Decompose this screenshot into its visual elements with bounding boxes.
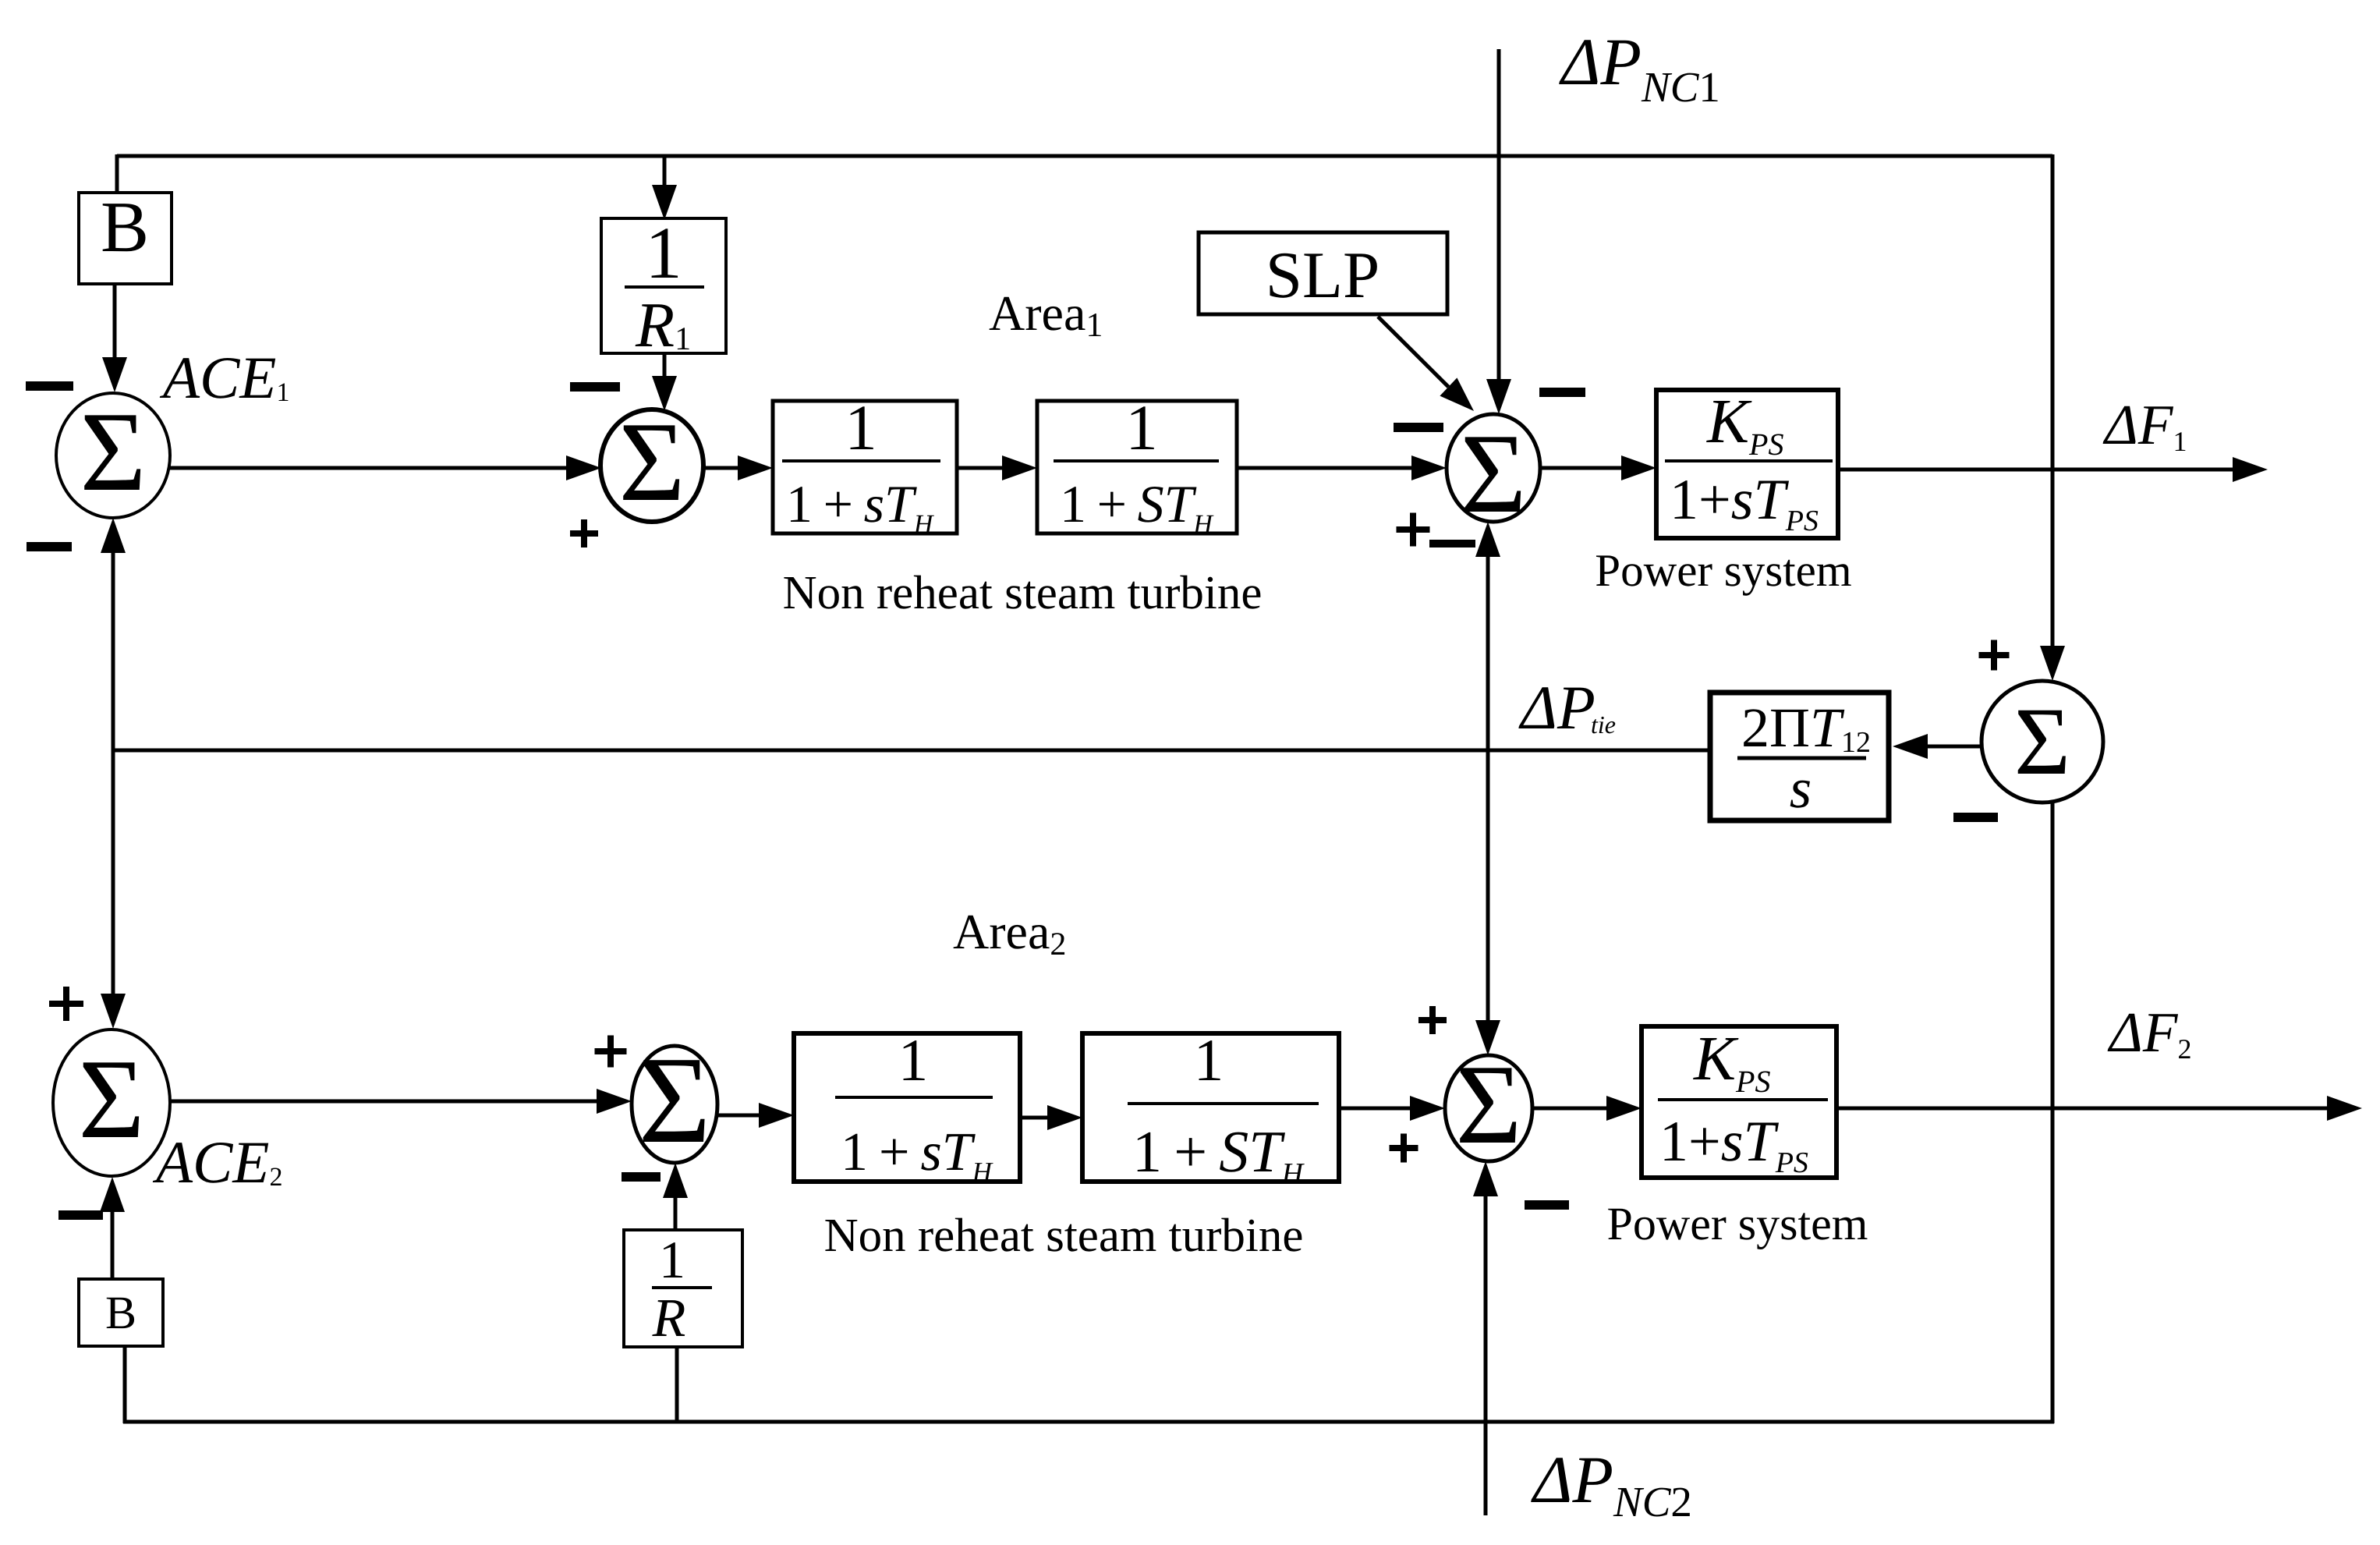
svg-text:KPS: KPS (1706, 386, 1783, 462)
wire: top feedback line from DF1 trunk to B and 1/R1 (117, 154, 2052, 158)
sign plus at load summer 2 top input (1418, 1017, 1447, 1023)
wire: right trunk lower from tie summer bottom to bottom feedback line (2051, 803, 2055, 1423)
svg-text:1: 1 (1194, 1026, 1224, 1093)
block 1/R1 (droop area 1) (601, 218, 726, 353)
wire: turbine to load summer 1 (1237, 466, 1413, 470)
block B2 (frequency bias area 2) (79, 1279, 163, 1346)
wire: bottom feedback line (DF2 to B and 1/R) (123, 1420, 2054, 1424)
sign plus at governor summer 2 left input (595, 1048, 627, 1054)
svg-text:Σ: Σ (80, 388, 147, 515)
summer load area 1 (1447, 414, 1540, 522)
wire: governor summer 1 to turbine box 1 (703, 466, 739, 470)
wire: ACE1 output to governor summer 1 (170, 466, 568, 470)
sign plus at tie summer top input (1979, 652, 2010, 658)
summer ACE2 (53, 1029, 170, 1176)
sign minus at load summer 2 bottom input (1525, 1200, 1569, 1210)
wire: load summer 1 to power system 1 (1540, 466, 1623, 470)
svg-text:B: B (101, 187, 149, 268)
svg-text:Σ: Σ (79, 1036, 145, 1162)
svg-text:Σ: Σ (2014, 688, 2070, 795)
sign minus at load summer 1 bottom input (1429, 540, 1475, 547)
svg-text:tie: tie (1591, 710, 1616, 739)
svg-text:1: 1 (1125, 392, 1158, 463)
wire: 1/R1 into governor summer 1 (minus) (663, 353, 667, 377)
svg-text:1 + STH: 1 + STH (1060, 474, 1214, 539)
svg-text:1+sTPS: 1+sTPS (1670, 468, 1819, 537)
svg-text:Σ: Σ (1456, 1041, 1522, 1168)
svg-text:Power system: Power system (1607, 1198, 1868, 1249)
wire: right trunk vertical (DF1 junction down to tie summer) (2051, 154, 2055, 647)
block tie line 2*PI*T12/s (1710, 693, 1889, 820)
wire: power system 1 output DF1 (1838, 468, 2234, 472)
wire: B into ACE1 summer (minus) (113, 284, 117, 359)
svg-text:ΔPNC1: ΔPNC1 (1559, 24, 1720, 111)
sign plus at load summer 2 left input (1390, 1145, 1418, 1151)
wire: 1/R into governor summer 2 (minus) (674, 1196, 678, 1230)
wire: turbine to load summer 2 (1339, 1107, 1411, 1111)
wire: turbine box 1 to turbine box 2 (area 1) (957, 466, 1004, 470)
wire: arrow into tie summer top (2040, 646, 2065, 681)
wire: turbine box 1 to box 2 (area 2) (1020, 1116, 1049, 1120)
wire: corner down to B box (115, 154, 119, 194)
svg-text:ΔF1: ΔF1 (2102, 393, 2187, 457)
svg-text:ΔPNC2: ΔPNC2 (1531, 1442, 1692, 1526)
block power system 2 KPS/(1+sTPS) (1642, 1026, 1836, 1178)
svg-text:1 + sTH: 1 + sTH (786, 474, 935, 539)
summer governor area 2 (632, 1046, 717, 1163)
svg-text:ACE2: ACE2 (152, 1129, 282, 1196)
sign minus at governor summer 1 top input (570, 382, 620, 392)
wire: load summer 2 to power system 2 (1532, 1107, 1608, 1111)
svg-text:R: R (652, 1288, 686, 1348)
block governor 1/(1+sTH) area 2 (794, 1033, 1020, 1182)
summer load area 2 (1445, 1055, 1532, 1161)
sign plus at load summer 1 left input (1397, 526, 1430, 533)
svg-text:ΔP: ΔP (1518, 674, 1596, 742)
block governor 1/(1+sTH) area 1 (773, 401, 957, 533)
wire: DPtie up into load summer 1 bottom (minus) (1486, 555, 1490, 750)
sign minus at ACE2 bottom input (58, 1210, 103, 1220)
svg-text:1: 1 (645, 211, 682, 294)
svg-text:1 + STH: 1 + STH (1132, 1119, 1305, 1190)
svg-text:1 + sTH: 1 + sTH (841, 1122, 993, 1187)
wire: ACE2 output to governor summer 2 (170, 1100, 598, 1104)
sign plus at ACE2 top input (49, 1001, 83, 1007)
sign minus at governor summer 2 bottom input (622, 1172, 661, 1182)
svg-text:R1: R1 (635, 289, 691, 360)
wire: DPtie down into load summer 2 top (plus) (1486, 750, 1490, 1022)
svg-text:ΔF2: ΔF2 (2107, 1001, 2191, 1065)
wire: corner up to B box 2 (123, 1346, 127, 1423)
svg-text:Area1: Area1 (989, 285, 1103, 344)
svg-text:ACE1: ACE1 (159, 344, 289, 411)
block power system 1 KPS/(1+sTPS) (1656, 390, 1838, 538)
wire: B into ACE2 bottom (minus) (111, 1210, 115, 1279)
sign minus at load summer 1 SLP input (1394, 423, 1443, 432)
svg-text:s: s (1790, 757, 1812, 820)
sign plus at governor summer 1 left input (570, 530, 598, 537)
wire: DPnc2 input up into load summer 2 bottom (1484, 1195, 1488, 1515)
svg-text:KPS: KPS (1693, 1023, 1770, 1099)
summer ACE1 (56, 393, 170, 518)
svg-text:1: 1 (898, 1026, 929, 1093)
block turbine 1/(1+STH) area 1 (1037, 401, 1237, 533)
wire: SLP arrow into load summer 1 (1378, 317, 1448, 387)
block turbine 1/(1+STH) area 2 (1082, 1033, 1339, 1182)
wire: power system 2 output DF2 (1836, 1107, 2329, 1111)
block 1/R (droop area 2) (624, 1230, 742, 1347)
block SLP (step load perturbation) (1199, 232, 1447, 314)
svg-text:Non reheat steam turbine: Non reheat steam turbine (783, 567, 1263, 619)
svg-text:1: 1 (845, 392, 877, 463)
svg-text:Σ: Σ (638, 1030, 710, 1169)
svg-text:1: 1 (659, 1230, 685, 1289)
wire: DPtie horizontal line (113, 749, 1710, 753)
svg-text:2ΠT12: 2ΠT12 (1741, 696, 1871, 759)
sign minus at ACE1 top input (26, 381, 73, 391)
block B1 (frequency bias area 1) (79, 193, 172, 284)
sign minus at load summer 1 DPnc1 input (1539, 388, 1585, 397)
wire: tie summer output into 2PI T12/s box (1926, 745, 1982, 749)
svg-text:SLP: SLP (1266, 239, 1379, 312)
svg-text:Non reheat steam turbine: Non reheat steam turbine (824, 1210, 1304, 1262)
wire: DPnc1 input into load summer 1 (1497, 49, 1501, 381)
sign minus at ACE1 bottom input (27, 542, 72, 551)
svg-text:B: B (105, 1287, 136, 1338)
wire: governor summer 2 to turbine box 1 (area 2) (717, 1114, 760, 1118)
sign minus at tie summer bottom input (1953, 813, 1998, 822)
wire: DPtie into ACE2 top (plus) (112, 750, 115, 995)
summer tie line (1982, 681, 2103, 803)
svg-text:Σ: Σ (619, 399, 685, 525)
svg-text:Power system: Power system (1595, 544, 1851, 596)
wire: DPtie into ACE1 bottom (minus) (112, 551, 115, 750)
svg-text:Σ: Σ (1461, 410, 1527, 537)
svg-text:1+sTPS: 1+sTPS (1659, 1110, 1808, 1179)
summer governor area 1 (600, 409, 703, 522)
wire: drop from top line into 1/R1 (663, 156, 667, 195)
svg-text:Area2: Area2 (953, 904, 1066, 962)
wire: stub up into 1/R box (area 2) (675, 1347, 679, 1422)
